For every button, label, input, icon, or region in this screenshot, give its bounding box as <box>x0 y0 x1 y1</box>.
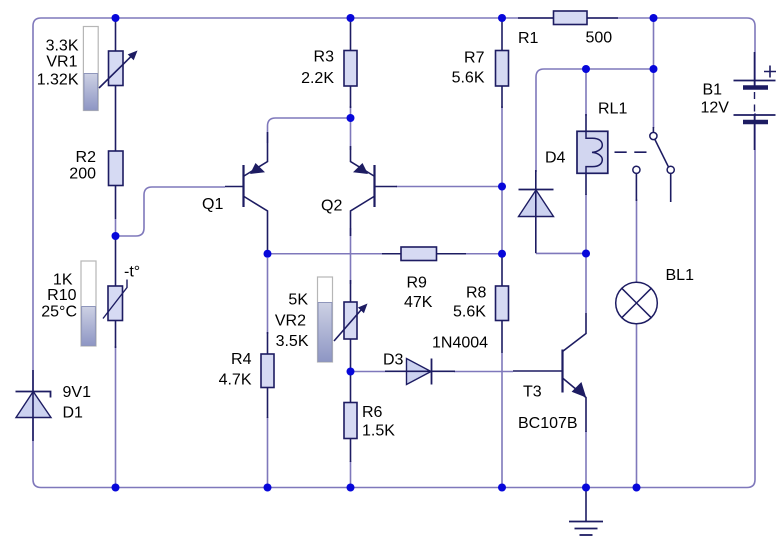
diode D4 (relay flyback) <box>519 170 554 253</box>
svg-text:9V1: 9V1 <box>63 384 92 401</box>
node Q2 base divider <box>498 183 506 191</box>
svg-text:1K: 1K <box>53 272 73 289</box>
wire from top rail down to switch common <box>653 18 655 128</box>
wire Q1 collector node down to R4 <box>267 258 269 334</box>
svg-text:R9: R9 <box>407 275 428 292</box>
svg-text:R6: R6 <box>362 404 383 421</box>
svg-text:3.5K: 3.5K <box>276 333 309 350</box>
resistor R9 47K <box>382 247 466 261</box>
node VR1/R2/R10 junction <box>112 232 120 240</box>
thermistor R10 1K 25°C <box>103 236 127 348</box>
resistor R4 4.7K <box>261 332 274 418</box>
svg-text:R3: R3 <box>314 49 335 66</box>
wire R6 bottom to ground rail <box>350 461 352 488</box>
wire Q1 collector node to R9 left <box>268 253 384 255</box>
transistor Q2 (PNP) <box>351 146 398 236</box>
node at switch feed top rail <box>650 14 658 22</box>
svg-text:2.2K: 2.2K <box>301 70 334 87</box>
resistor R1 500 <box>518 11 618 25</box>
wire D4 node down to T3 collector <box>585 254 587 313</box>
wire R10 bottom to ground rail <box>115 346 117 488</box>
svg-text:R4: R4 <box>231 351 252 368</box>
wire R4 bottom to ground rail <box>267 417 269 488</box>
diode D3 1N4004 <box>385 359 455 385</box>
wire D3 cathode to T3 base <box>454 371 513 373</box>
svg-text:3.3K: 3.3K <box>46 38 79 55</box>
wire VR2 bottom node to D3 anode <box>351 371 386 373</box>
resistor R2 200 <box>109 151 124 236</box>
node ground rail at T3/ground <box>582 484 590 492</box>
wire relay top feed <box>585 69 587 116</box>
relay coil RL1 <box>577 114 608 195</box>
node D4 / relay bottom / T3 collector <box>582 250 590 258</box>
svg-text:-t°: -t° <box>124 264 140 281</box>
node VR2 bottom / D3 / R6 <box>347 368 355 376</box>
svg-text:1N4004: 1N4004 <box>432 335 488 352</box>
node ground rail at R4 <box>264 484 272 492</box>
outer supply loop wire <box>33 18 755 488</box>
resistor R3 2.2K <box>344 18 357 108</box>
svg-text:Q2: Q2 <box>321 198 342 215</box>
svg-text:T3: T3 <box>523 384 542 401</box>
svg-text:D1: D1 <box>63 405 84 422</box>
resistor R7 5.6K <box>496 18 509 108</box>
node at R3 top rail <box>347 14 355 22</box>
svg-text:B1: B1 <box>703 82 723 99</box>
node ground rail at R6 <box>347 484 355 492</box>
node ground rail at lamp <box>633 484 641 492</box>
wire emitter node down to Q2 emitter <box>350 118 352 150</box>
svg-text:R1: R1 <box>518 30 539 47</box>
svg-text:5.6K: 5.6K <box>453 304 486 321</box>
svg-text:R7: R7 <box>464 50 485 67</box>
wire R7 bottom through base node to R8 node <box>501 106 503 254</box>
transistor T3 (NPN) BC107B <box>513 313 586 432</box>
switch contact (relay driven, SPDT) <box>633 127 675 202</box>
potentiometer VR1 bar-graph indicator <box>83 27 98 111</box>
node emitters junction <box>347 114 355 122</box>
dashed mechanical link relay to switch <box>615 151 651 153</box>
wire relay bottom to D4 node <box>585 194 587 254</box>
wire D4 bottom to relay-collector node <box>536 252 586 254</box>
node at R7 top rail <box>498 14 506 22</box>
node Q1 collector / R9 / R4 <box>264 250 272 258</box>
wire relay feed from D4 top to switch common column <box>536 69 654 172</box>
svg-text:R10: R10 <box>47 287 76 304</box>
svg-text:47K: 47K <box>404 294 433 311</box>
node relay feed right <box>650 65 658 73</box>
svg-text:500: 500 <box>586 30 613 47</box>
resistor R8 5.6K <box>496 254 509 353</box>
wire Q2 collector to VR2 <box>350 228 352 284</box>
svg-text:D4: D4 <box>545 150 566 167</box>
svg-text:BL1: BL1 <box>666 267 695 284</box>
svg-text:Q1: Q1 <box>202 196 223 213</box>
svg-text:200: 200 <box>69 166 96 183</box>
wire emitters row Q1 to node <box>268 118 351 143</box>
node ground rail at R10 <box>112 484 120 492</box>
svg-text:4.7K: 4.7K <box>219 372 252 389</box>
lamp BL1 <box>616 282 658 324</box>
svg-text:12V: 12V <box>701 100 730 117</box>
svg-text:1.5K: 1.5K <box>362 423 395 440</box>
node relay feed left <box>582 65 590 73</box>
ground symbol <box>569 488 603 536</box>
battery B1 12V <box>734 52 776 150</box>
zener diode D1 9V1 <box>16 370 52 441</box>
svg-text:5K: 5K <box>288 292 308 309</box>
node R9 right / R8 top <box>498 250 506 258</box>
battery plus sign <box>764 66 776 78</box>
svg-text:RL1: RL1 <box>598 101 627 118</box>
svg-text:R8: R8 <box>466 285 487 302</box>
potentiometer VR2 bar-graph indicator <box>318 277 333 362</box>
transistor Q1 (PNP) <box>225 132 268 254</box>
svg-text:1.32K: 1.32K <box>37 72 79 89</box>
svg-text:25°C: 25°C <box>41 304 77 321</box>
wire Q1 base from divider node <box>116 187 226 236</box>
svg-text:R2: R2 <box>76 149 97 166</box>
svg-text:BC107B: BC107B <box>518 415 578 432</box>
wire switch left throw down to lamp <box>636 199 638 284</box>
svg-text:D3: D3 <box>383 352 404 369</box>
resistor R6 1.5K <box>344 372 357 463</box>
potentiometer VR2 5K set 3.5K <box>334 280 368 372</box>
node ground rail at R8 <box>498 484 506 492</box>
wire R9 right to R8 node <box>465 253 502 255</box>
wire lamp bottom to ground rail <box>636 324 638 488</box>
wire R8 bottom to ground rail <box>501 353 503 488</box>
svg-text:5.6K: 5.6K <box>452 70 485 87</box>
potentiometer VR1 3.3K set 1.32K <box>99 18 138 151</box>
svg-text:VR2: VR2 <box>275 313 306 330</box>
svg-text:VR1: VR1 <box>46 54 77 71</box>
wire Q2 base to R7/R8 node <box>396 186 502 188</box>
wire T3 emitter to ground rail <box>585 431 587 488</box>
wire R3 bottom to emitter node <box>350 106 352 118</box>
node at VR1 top rail <box>112 14 120 22</box>
thermistor R10 bar-graph indicator <box>81 261 96 346</box>
